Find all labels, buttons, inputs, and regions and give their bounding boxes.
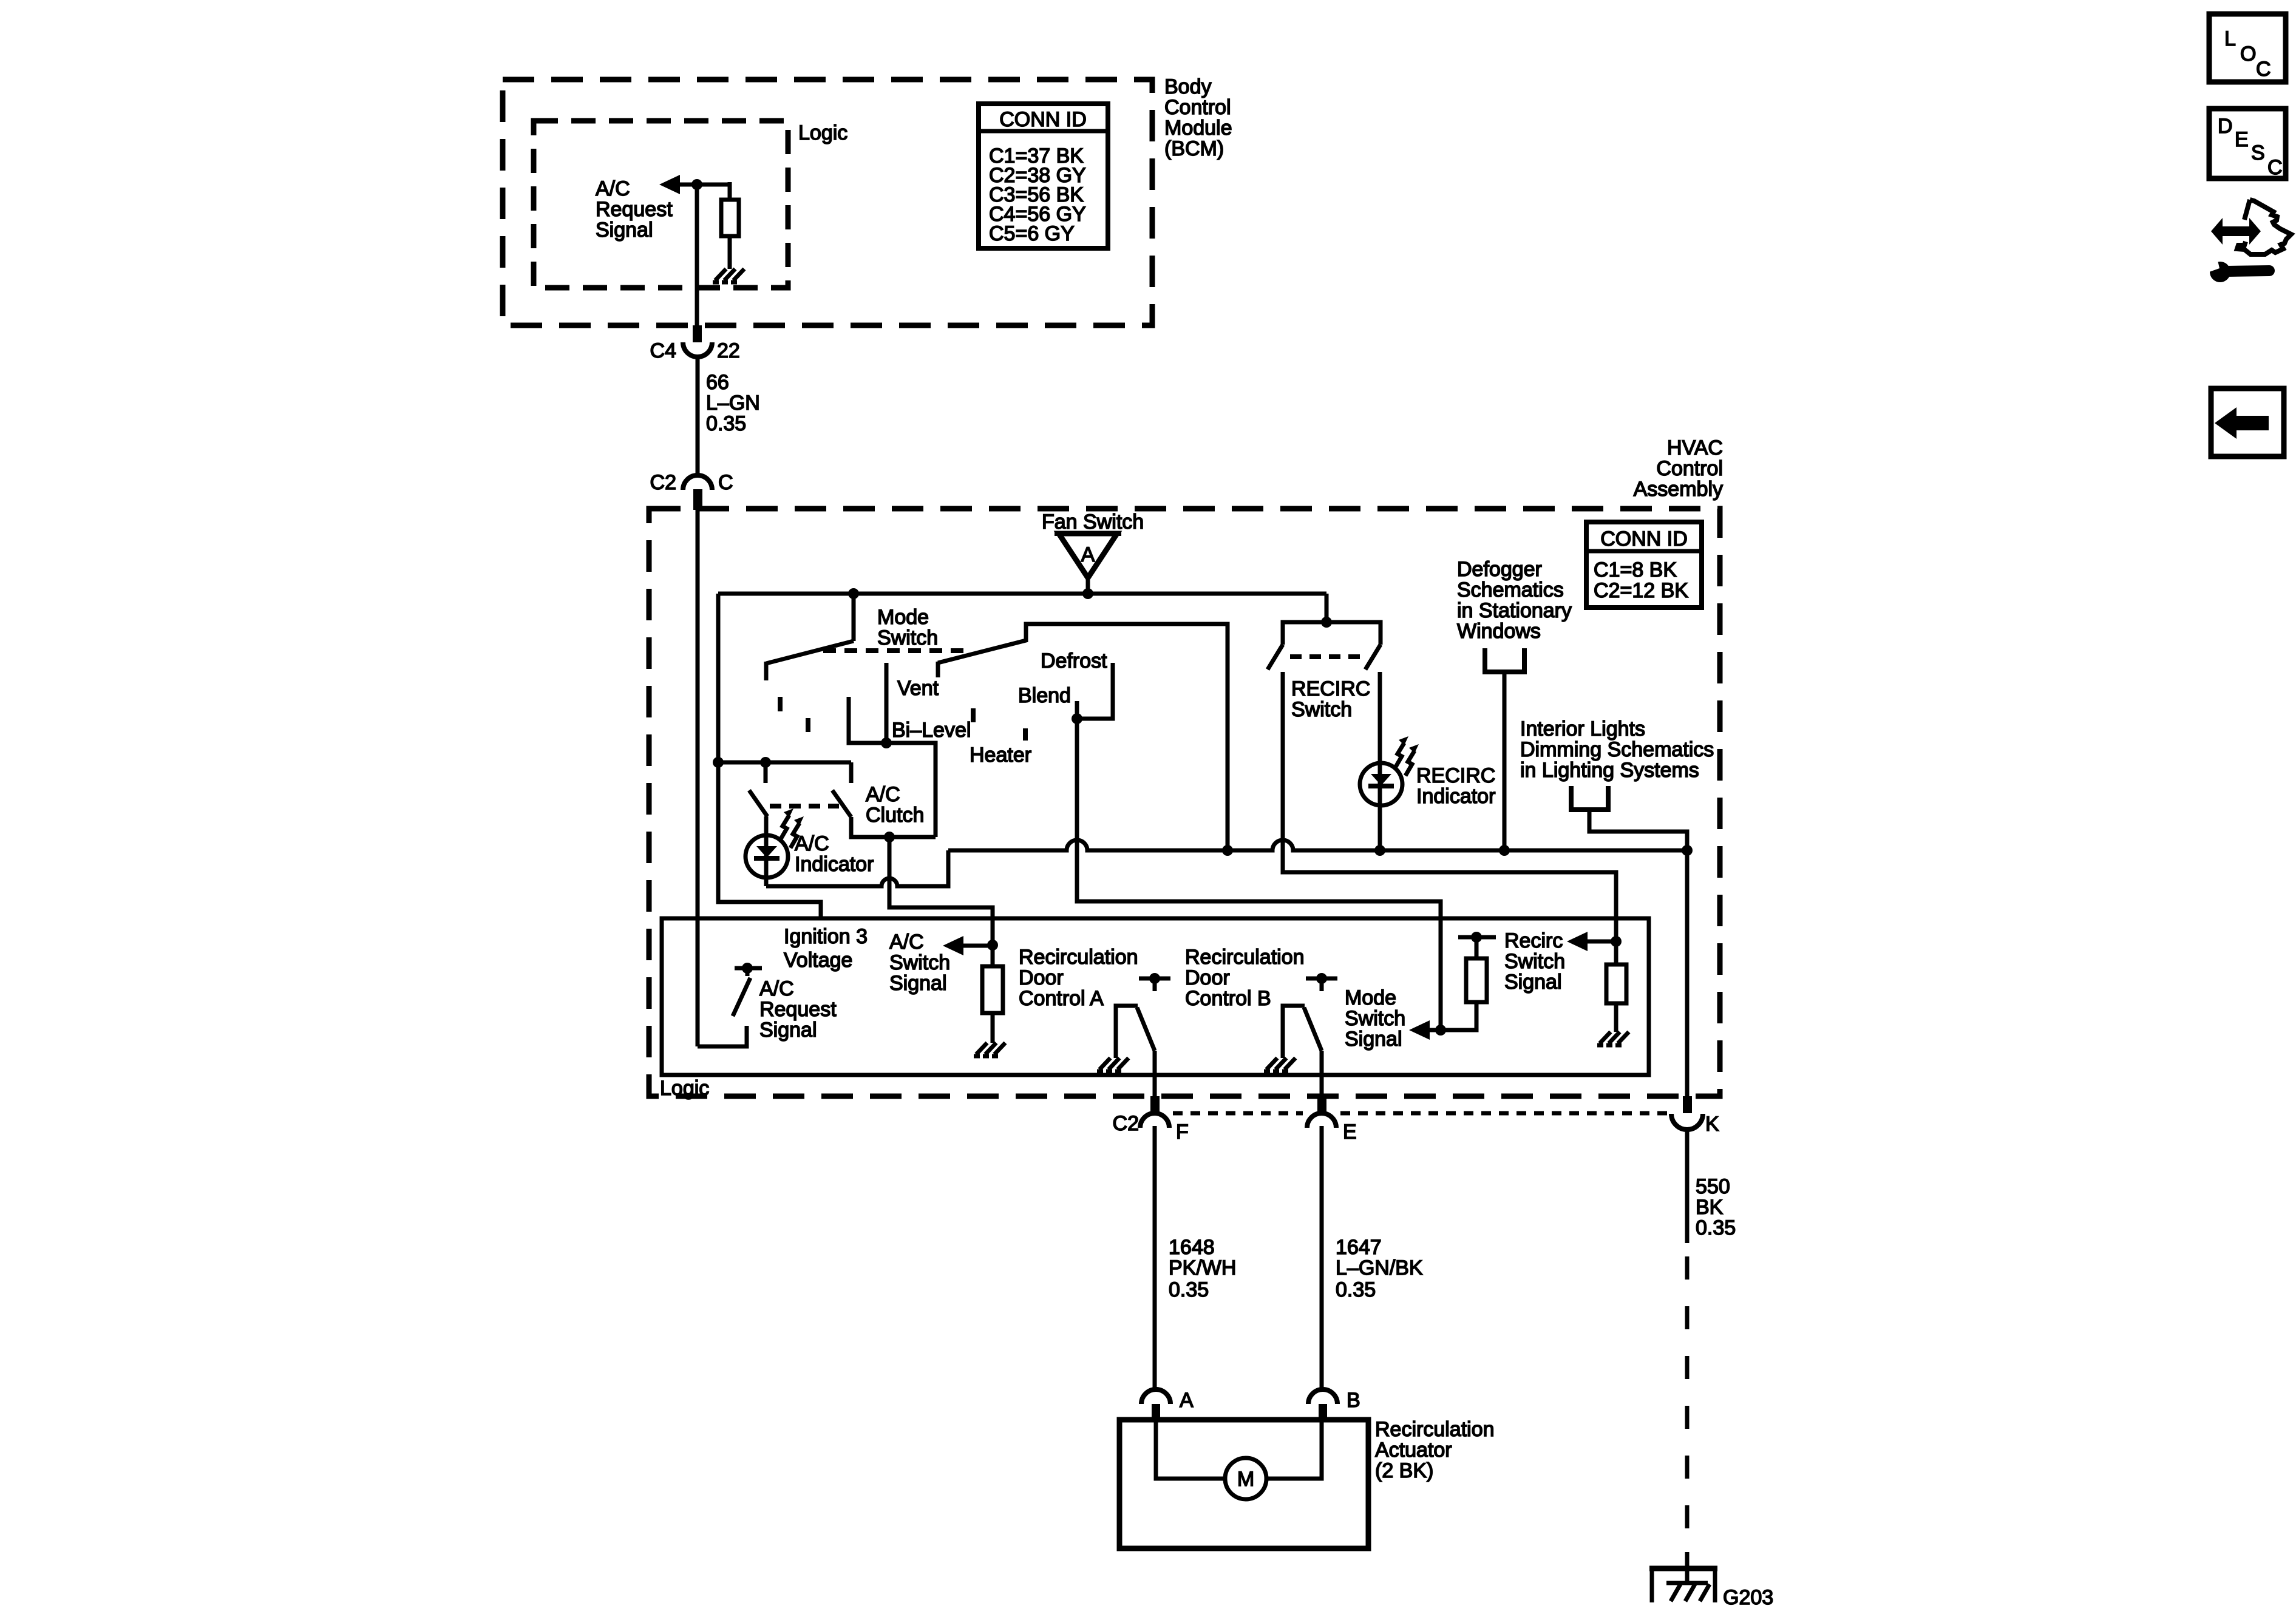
contact stub (left pole position 1) [778,697,783,711]
junction dot A/C request node [691,179,702,190]
svg-text:Switch: Switch [1504,950,1565,973]
contact Vent [885,663,889,743]
junction dot recirc switch signal [1611,936,1622,947]
svg-text:A/C: A/C [596,177,630,200]
contact Bi-Level [849,697,936,837]
junction dot A/C clutch output [884,832,895,842]
CONN ID table (HVAC) [1586,522,1702,608]
wire mode switch feed drop [852,594,856,641]
fan switch triangle A [1059,534,1117,578]
junction dot mode switch signal [1435,1025,1446,1036]
svg-text:Logic: Logic [660,1077,709,1100]
junction dot mode switch tap [848,588,859,599]
svg-text:Recirculation: Recirculation [1375,1418,1495,1441]
svg-text:Door: Door [1019,966,1064,989]
connector C2 pin E [1317,1096,1326,1113]
LED A/C indicator [764,816,769,886]
wire recirc right contact to indicator [1378,672,1382,850]
svg-text:D: D [2218,115,2233,138]
node lamp bus (hops over blend and recirc wires) [948,840,1687,850]
wire 66 L-GN 0.35 [696,357,700,474]
switch coupling dashed line (A/C) [770,804,839,808]
svg-text:B: B [1347,1389,1360,1412]
svg-text:Indicator: Indicator [1416,785,1495,808]
svg-text:C2=12 BK: C2=12 BK [1594,579,1688,602]
svg-text:S: S [2251,141,2265,164]
svg-text:E: E [2235,128,2249,151]
contact stub (right pole position 1) [971,708,976,722]
ground (door control B) [1264,1058,1296,1071]
svg-text:Assembly: Assembly [1634,478,1723,501]
svg-text:Recirculation: Recirculation [1019,946,1138,969]
svg-text:Recirc: Recirc [1504,929,1563,952]
svg-text:CONN ID: CONN ID [999,108,1087,131]
icon LOC box [2209,14,2286,82]
wire fan switch to bus [1086,578,1090,594]
svg-text:in Lighting Systems: in Lighting Systems [1520,759,1699,782]
wire door control A output to F [1153,1051,1157,1099]
node mode switch signal arrow [1427,1028,1441,1032]
svg-text:Indicator: Indicator [795,853,874,876]
svg-text:Control: Control [1164,96,1231,119]
junction dot vent/bi-level node [881,737,892,748]
svg-text:1648: 1648 [1169,1236,1215,1259]
junction dot bus / A-C switch feed [713,757,724,768]
svg-text:C: C [2267,156,2283,179]
connector C2 pin C [683,475,712,490]
svg-text:C2: C2 [1113,1112,1139,1135]
svg-text:Control: Control [1656,457,1723,480]
off-page bracket defogger [1485,648,1524,672]
resistor recirc switch signal [1614,941,1618,964]
svg-text:Interior Lights: Interior Lights [1520,717,1645,741]
junction dot bus/recirc indicator [1374,845,1385,856]
svg-text:0.35: 0.35 [706,412,746,435]
wire A/C request signal down to C4 [695,185,699,328]
wire 550 BK 0.35 [1685,1128,1690,1243]
svg-text:Signal: Signal [596,219,653,242]
svg-text:C5=6 GY: C5=6 GY [989,222,1075,245]
wire from C2-C into HVAC logic [696,509,700,1046]
svg-text:C1=8 BK: C1=8 BK [1594,558,1677,581]
lightning arrows (A/C indicator) [780,808,804,848]
icon part-locator (arrow + outline + wrench) [2206,200,2291,282]
switch recirculation door control B [1306,977,1337,981]
svg-text:C4: C4 [650,339,676,362]
wire interior lights to bus [1589,810,1687,850]
mode switch wiper (left pole) [766,641,854,663]
svg-text:M: M [1237,1468,1254,1491]
svg-text:Defogger: Defogger [1457,558,1542,581]
wire 550 BK dashed run to G203 [1685,1256,1690,1552]
svg-text:Door: Door [1185,966,1230,989]
svg-text:Signal: Signal [1504,971,1562,994]
recirculation actuator box [1119,1420,1368,1548]
svg-text:Clutch: Clutch [866,804,924,827]
mode switch wiper (right pole) [936,662,940,677]
svg-text:RECIRC: RECIRC [1291,677,1370,700]
svg-text:0.35: 0.35 [1336,1278,1376,1301]
svg-text:Control A: Control A [1019,987,1104,1010]
junction dot A/C switch signal [987,940,998,951]
svg-text:Voltage: Voltage [784,949,852,972]
svg-text:F: F [1176,1120,1189,1144]
lightning arrows (RECIRC indicator) [1395,736,1419,776]
contact stub (right pole position 2) [1023,728,1028,741]
svg-text:A/C: A/C [889,931,924,954]
svg-text:Heater: Heater [970,744,1031,767]
icon DESC box [2209,109,2286,178]
contact stub (left pole position 2) [806,718,810,732]
resistor A/C switch signal [991,945,995,966]
contact Defrost [1077,663,1113,719]
LED RECIRC indicator [1360,763,1402,805]
wire A/C switch feed line [718,761,851,765]
svg-text:Body: Body [1164,75,1212,98]
svg-text:Bi–Level: Bi–Level [892,719,971,742]
junction dot fan switch/bus [1082,588,1093,599]
switch coupling dashed line (RECIRC) [1290,654,1361,659]
svg-text:Switch: Switch [889,951,950,974]
wire lamp bus to K [1685,850,1690,1099]
junction dot bus/interior lights [1682,845,1693,856]
ground G203 [1649,1566,1717,1602]
connector pin A [1141,1389,1170,1404]
BCM inner Logic dashed box [534,121,788,288]
svg-text:Recirculation: Recirculation [1185,946,1305,969]
svg-text:0.35: 0.35 [1169,1278,1209,1301]
wire LED return to lamp bus (hop over clutch drop) [766,850,948,886]
svg-text:Fan Switch: Fan Switch [1042,510,1144,534]
svg-text:1647: 1647 [1336,1236,1382,1259]
svg-text:Windows: Windows [1457,620,1541,643]
svg-text:A/C: A/C [866,783,900,806]
svg-text:Actuator: Actuator [1375,1439,1452,1462]
connector C4 pin 22 [683,342,712,357]
wire defogger to bus [1503,672,1507,850]
wire bus left drop to ignition feed [718,594,821,918]
junction dot A/C request switch tap [760,757,771,768]
svg-text:Mode: Mode [877,606,929,629]
svg-text:66: 66 [706,371,729,394]
motor M leads [1156,1420,1225,1479]
junction dot recirc common [1321,617,1332,628]
svg-text:K: K [1705,1113,1719,1136]
svg-text:Schematics: Schematics [1457,578,1564,602]
contact Blend [1075,701,1079,719]
wire door control B output to E [1320,1051,1324,1099]
node A/C Request Signal arrow [674,183,730,187]
wire recirc left contact down to recirc signal [1283,672,1616,941]
svg-text:L–GN/BK: L–GN/BK [1336,1256,1423,1280]
svg-text:0.35: 0.35 [1696,1216,1736,1239]
svg-text:Module: Module [1164,117,1232,140]
svg-text:(BCM): (BCM) [1164,137,1224,160]
svg-text:in Stationary: in Stationary [1457,599,1572,622]
svg-text:A: A [1180,1389,1194,1412]
ground (BCM internal) [713,269,744,282]
junction dot bus/defogger [1499,845,1510,856]
svg-text:(2 BK): (2 BK) [1375,1459,1433,1482]
node A/C switch signal arrow [961,944,993,948]
svg-text:HVAC: HVAC [1667,436,1723,459]
ground (recirc switch signal) [1597,1032,1629,1045]
svg-text:Logic: Logic [798,121,847,144]
CONN ID table (BCM) [979,104,1108,248]
svg-text:Request: Request [596,198,673,221]
svg-text:A/C: A/C [759,977,794,1000]
switch A/C (left, to indicator) [764,762,768,783]
svg-text:Control B: Control B [1185,987,1271,1010]
node main feed bus (fan switch bus) [718,592,1326,596]
svg-text:Defrost: Defrost [1041,649,1107,673]
svg-text:PK/WH: PK/WH [1169,1256,1236,1280]
mode switch coupling dashed line [823,648,967,653]
switch RECIRC [1283,622,1381,645]
connector pin B [1308,1389,1337,1404]
switch recirculation door control A [1139,977,1170,981]
svg-text:Switch: Switch [1291,698,1352,721]
wire bus to recirc switch common [1325,594,1329,622]
svg-text:22: 22 [717,339,740,362]
switch A/C request (logic) [735,966,762,971]
svg-text:O: O [2240,42,2256,66]
svg-text:Dimming Schematics: Dimming Schematics [1520,738,1714,761]
svg-text:Switch: Switch [1345,1007,1405,1030]
svg-text:C2: C2 [650,471,676,494]
motor M [1225,1458,1266,1499]
junction dot bus/right mode rail [1222,845,1233,856]
HVAC Logic solid box [662,918,1649,1075]
connector C2 pin F [1150,1096,1160,1113]
svg-text:A/C: A/C [795,832,829,855]
svg-text:L: L [2224,27,2236,50]
wire blend node down to mode switch signal [1077,719,1441,1030]
svg-text:Signal: Signal [1345,1028,1402,1051]
svg-text:C: C [718,471,733,494]
icon back arrow box [2211,388,2284,456]
svg-text:E: E [1343,1120,1357,1144]
svg-text:BK: BK [1696,1196,1724,1219]
junction dot blend/defrost node [1072,713,1082,724]
wire 1648 PK/WH 0.35 [1153,1126,1157,1389]
svg-text:Switch: Switch [877,626,938,649]
wire 1647 L-GN/BK 0.35 [1320,1126,1324,1389]
BCM outer dashed box [503,80,1152,325]
svg-text:Request: Request [759,998,837,1021]
ground (door control A) [1097,1058,1129,1071]
node recirc switch signal arrow [1585,940,1616,944]
off-page bracket interior lights [1571,786,1608,810]
svg-text:Signal: Signal [759,1019,817,1042]
switch A/C clutch (right) [849,762,854,783]
wire A/C clutch node to A/C switch signal [889,837,993,945]
svg-text:G203: G203 [1723,1586,1773,1609]
svg-text:Ignition 3: Ignition 3 [784,925,868,948]
svg-text:C: C [2256,58,2271,81]
resistor R-BCM pull-down [728,182,732,200]
HVAC Control Assembly dashed box [649,509,1720,1096]
svg-text:Signal: Signal [889,972,947,995]
svg-text:A: A [1081,543,1095,566]
svg-text:Vent: Vent [897,677,939,700]
svg-text:L–GN: L–GN [706,392,760,415]
connector C2 harness dotted line [1173,1111,1303,1116]
svg-text:550: 550 [1696,1175,1730,1198]
svg-text:Blend: Blend [1018,684,1071,707]
svg-text:CONN ID: CONN ID [1600,527,1688,551]
connector C1 pin K [1683,1096,1692,1113]
svg-text:Mode: Mode [1345,986,1396,1009]
resistor mode switch signal [1441,1002,1476,1030]
svg-text:RECIRC: RECIRC [1416,764,1495,787]
ground (A/C switch signal) [974,1043,1005,1056]
